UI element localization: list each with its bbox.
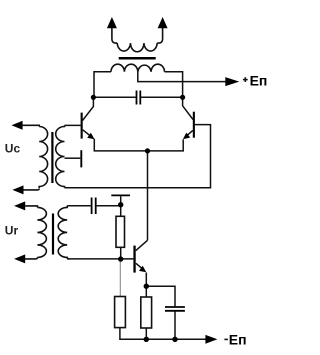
- svg-text:Uc: Uc: [5, 142, 21, 156]
- svg-text:Ur: Ur: [5, 224, 19, 238]
- svg-text:Eп: Eп: [229, 332, 247, 348]
- svg-text:Eп: Eп: [250, 73, 268, 89]
